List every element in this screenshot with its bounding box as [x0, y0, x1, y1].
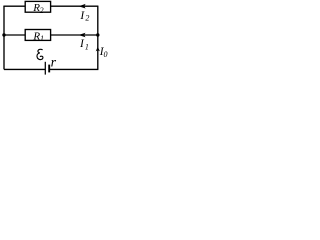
battery positive plate (long) — [44, 62, 46, 75]
battery negative plate (short thick) — [48, 65, 50, 73]
label EMF script E — [37, 49, 43, 59]
svg-text:r: r — [51, 56, 57, 71]
svg-text:2: 2 — [85, 14, 89, 23]
current arrow I1 — [79, 33, 86, 38]
svg-text:0: 0 — [104, 50, 108, 59]
svg-text:1: 1 — [85, 42, 89, 51]
wire top left segment — [3, 5, 25, 7]
resistor R2 — [25, 1, 50, 12]
svg-text:2: 2 — [40, 6, 44, 15]
wire right vertical — [97, 6, 99, 69]
node junction right — [96, 33, 99, 36]
wire middle right segment — [51, 34, 99, 36]
wire middle left segment — [4, 34, 25, 36]
wire bottom right segment — [50, 68, 98, 70]
wire bottom left segment — [4, 68, 45, 70]
svg-text:1: 1 — [40, 34, 44, 43]
wire top right segment — [51, 5, 99, 7]
resistor R1 — [25, 30, 50, 41]
current arrow I0 — [96, 47, 100, 52]
node junction left — [2, 33, 5, 36]
wire left vertical — [3, 6, 5, 69]
current arrow I2 — [79, 4, 86, 9]
